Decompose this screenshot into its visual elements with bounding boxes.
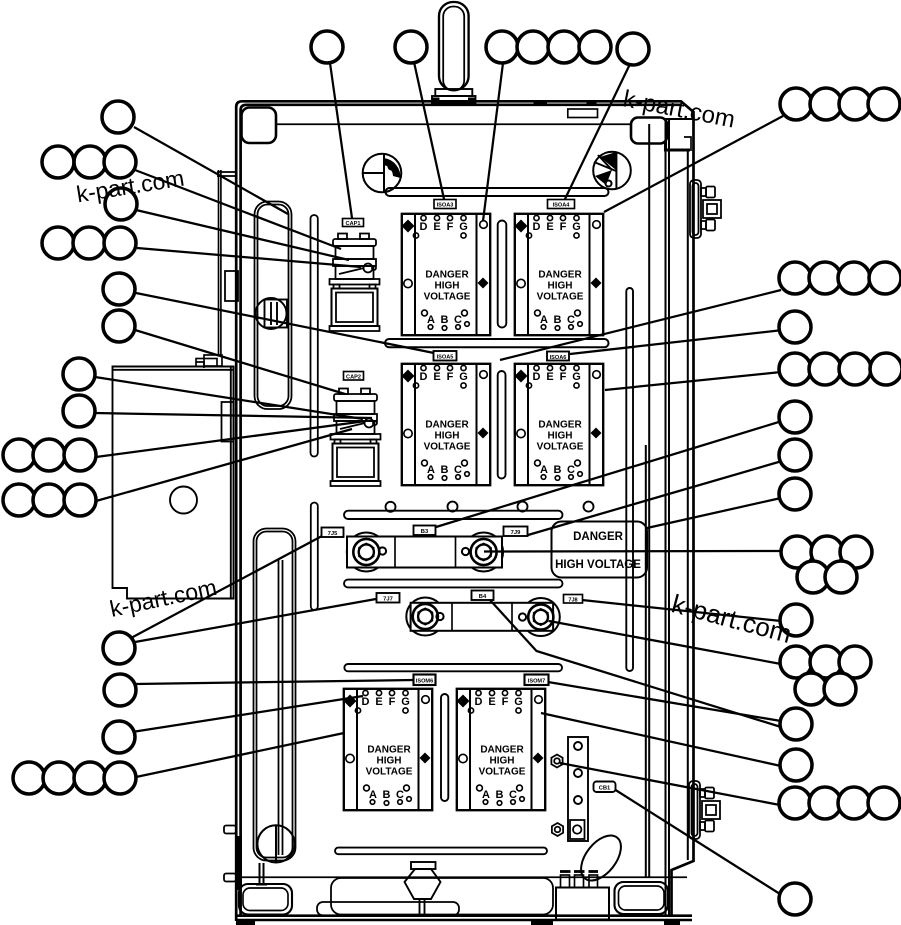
left wall small box lower <box>222 402 234 442</box>
svg-text:DANGER: DANGER <box>573 531 624 543</box>
cabinet outer frame <box>236 101 693 921</box>
cabinet top rail bottom edge <box>241 123 666 125</box>
top inner rail <box>386 188 609 196</box>
rail circles <box>386 502 594 512</box>
label 7J9 <box>504 527 528 537</box>
left equipment panel <box>113 359 234 599</box>
svg-text:ISOA5: ISOA5 <box>437 355 454 361</box>
leader to CAP2 top <box>135 330 345 394</box>
leader to ISOM6 label <box>135 680 414 684</box>
leader to block ISOA3 strip <box>483 63 503 221</box>
leader to door gasket <box>134 127 288 214</box>
top-left corner block <box>242 108 277 144</box>
left fan vent <box>363 154 402 193</box>
leader to CAP1 label <box>330 63 352 218</box>
leader to ISOA3 label <box>414 62 444 199</box>
bus bar B4 assembly <box>406 598 560 637</box>
top-right corner block <box>631 118 667 144</box>
svg-text:7J5: 7J5 <box>328 531 338 537</box>
label 7J7 <box>377 593 400 603</box>
danger block ISOA6 <box>515 364 604 485</box>
left wall dark band <box>236 836 243 890</box>
svg-text:CAP2: CAP2 <box>346 374 361 380</box>
vent circle bottom left <box>256 825 295 884</box>
leader to B3 label <box>436 421 782 527</box>
label ISOM7 <box>525 675 549 686</box>
svg-text:HIGH VOLTAGE: HIGH VOLTAGE <box>555 559 641 571</box>
danger high voltage plate <box>552 522 648 578</box>
leader to CB1 label <box>614 789 780 894</box>
leader lines <box>95 62 783 894</box>
slot between middle blocks <box>498 371 506 479</box>
svg-text:ISOA4: ISOA4 <box>553 203 571 209</box>
bottom right tray <box>615 882 669 914</box>
bottom center tray <box>317 878 553 916</box>
bolt bracket lower right <box>689 781 720 839</box>
bus bar B3 assembly <box>347 533 503 572</box>
left outer mounting bar <box>196 170 236 368</box>
floor band <box>236 916 692 920</box>
door gasket lower <box>254 529 296 861</box>
svg-text:7J8: 7J8 <box>568 597 577 603</box>
label 7J8 <box>564 595 583 604</box>
mid rail <box>385 339 609 347</box>
leader to CAP2 handle a <box>95 377 363 419</box>
left wall small box upper <box>225 271 238 301</box>
leader to block ISOA6 edge <box>605 372 781 390</box>
label ISOM6 <box>414 675 436 686</box>
left tall slot upper <box>311 215 318 457</box>
label ISOA3 <box>434 200 456 209</box>
left wall bolt lower <box>224 874 236 882</box>
contactor <box>556 872 609 920</box>
right wall fold <box>666 137 692 860</box>
leader to ISOA6 label <box>570 330 783 354</box>
right fan vent <box>593 152 631 190</box>
capacitor assembly CAP2 <box>331 389 381 487</box>
leader to ISOM7 label <box>548 682 781 721</box>
top rail tick marks <box>534 100 548 104</box>
bolt bracket upper right <box>690 180 721 238</box>
label ISOA6 <box>547 352 569 361</box>
danger block ISOM6 <box>344 689 433 810</box>
label ISOA4 <box>548 200 575 209</box>
danger block ISOA5 <box>402 364 491 485</box>
right tall slot <box>626 288 633 671</box>
danger block ISOA3 <box>402 214 491 335</box>
left tall slot lower <box>311 503 318 611</box>
floor feet <box>236 921 255 925</box>
rail below bus bar B3 <box>344 580 563 588</box>
label CAP2 <box>344 372 364 381</box>
svg-text:CAP1: CAP1 <box>346 221 361 227</box>
svg-text:ISOM7: ISOM7 <box>528 679 545 685</box>
door gasket upper <box>255 202 292 410</box>
label CB1 <box>594 782 616 793</box>
leader to CAP2 bracket <box>96 429 352 501</box>
leader to bus B4 bolt <box>549 621 781 664</box>
label B3 <box>414 526 436 536</box>
danger block ISOA4 <box>515 214 604 335</box>
svg-text:B3: B3 <box>421 529 429 535</box>
slot between bottom blocks <box>441 694 448 801</box>
leader to danger plate <box>647 498 781 528</box>
leader to hex bolt <box>560 763 780 805</box>
label ISOA5 <box>434 351 457 361</box>
label CAP1 <box>343 219 364 228</box>
svg-text:ISOA6: ISOA6 <box>550 355 567 361</box>
leader to CAP1 flange <box>136 210 349 260</box>
leader to 7J7 label <box>135 599 376 642</box>
leader to 7J9 label <box>528 461 782 535</box>
knockout circle <box>256 298 288 329</box>
slot between upper blocks <box>498 221 507 328</box>
interior floor line <box>242 876 687 878</box>
rail above bottom blocks <box>344 664 562 671</box>
leader to block ISOA4 lower corner <box>500 290 781 360</box>
hex bolt small bottom <box>552 823 563 836</box>
bottom rail <box>335 848 547 855</box>
leader to CAP1 top <box>135 170 341 249</box>
leader to block ISOM7 strip <box>541 713 781 766</box>
lifting eye <box>432 2 476 103</box>
svg-text:CB1: CB1 <box>599 786 611 792</box>
small box with circle bottom <box>570 820 585 839</box>
label B4 <box>472 591 494 601</box>
bottom left tray <box>239 884 292 915</box>
capacitor assembly CAP1 <box>330 234 380 332</box>
svg-text:B4: B4 <box>479 594 487 600</box>
leader to block ISOM6 diamond <box>132 696 363 732</box>
terminal strip <box>568 737 588 841</box>
leader to bus B3 bolt <box>484 550 781 553</box>
left wall bolt upper <box>224 826 236 834</box>
hex bolt upper <box>551 755 562 768</box>
leader to B4 label <box>490 600 781 727</box>
rail above bus bar B3 <box>344 511 563 519</box>
leader to 7J8 label <box>582 600 781 621</box>
leader to CAP1 handle <box>137 248 361 267</box>
svg-text:ISOM6: ISOM6 <box>416 679 433 685</box>
panel circle <box>170 487 197 514</box>
leader to ISOA5 label <box>136 293 434 353</box>
label 7J5 <box>322 528 344 538</box>
right wall vertical rails <box>646 119 694 915</box>
leader to 7J5 label <box>131 536 322 638</box>
leader to ISOA4 label <box>565 64 630 199</box>
svg-text:7J9: 7J9 <box>511 530 521 536</box>
small plate on top rail <box>568 109 598 118</box>
svg-text:7J7: 7J7 <box>383 597 393 603</box>
leader to block ISOA4 corner <box>604 116 783 212</box>
leader to CAP2 handle b <box>95 413 372 418</box>
svg-text:ISOA3: ISOA3 <box>437 203 454 209</box>
danger block ISOM7 <box>457 689 546 810</box>
leader to CAP2 handle c <box>96 421 366 457</box>
drain valve <box>405 862 441 915</box>
leader to block ISOM6 strip <box>136 733 344 777</box>
wire loop <box>573 828 629 887</box>
